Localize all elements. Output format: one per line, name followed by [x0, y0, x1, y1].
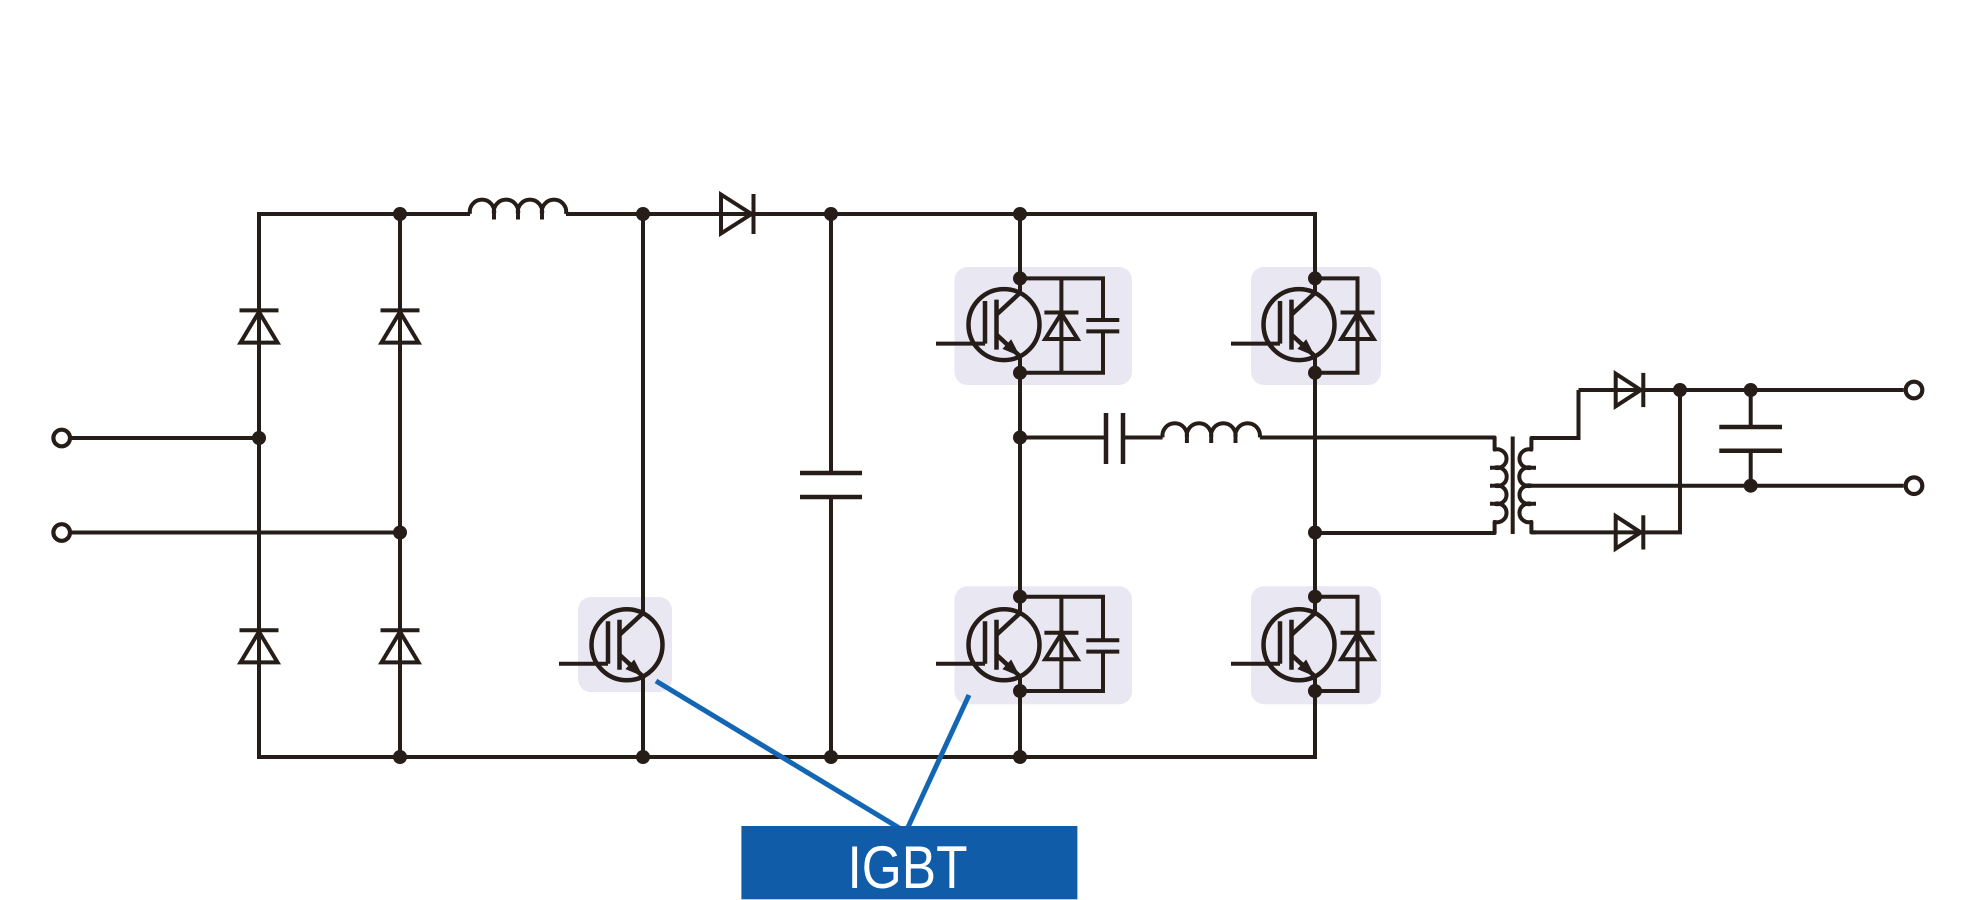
- wire right bridge leg: [398, 214, 402, 757]
- IGBT bridge Q3 top-right: [1231, 289, 1335, 360]
- capacitor output: [1719, 427, 1782, 451]
- wire input line bottom: [71, 531, 400, 535]
- junction Q5 emitter node: [1308, 684, 1322, 698]
- junction input top on left bridge leg: [252, 431, 266, 445]
- IGBT bridge Q5 bottom-right: [1231, 609, 1335, 680]
- wire bulk capacitor leg upper: [829, 214, 833, 473]
- branch wires Q3: [1315, 278, 1358, 372]
- diode boost D5: [721, 194, 754, 234]
- diode output top D6: [1616, 373, 1644, 407]
- wire boost IGBT leg upper: [641, 214, 645, 614]
- branch wires Q2: [1020, 278, 1103, 372]
- wire input line top: [71, 436, 259, 440]
- highlight box bridge IGBT bottom-left: [955, 586, 1133, 704]
- diode antiparallel Q2: [1044, 313, 1078, 340]
- diode bridge D3: [240, 630, 279, 662]
- wire boost IGBT leg lower: [641, 677, 645, 758]
- highlight box bridge IGBT top-left: [955, 267, 1133, 385]
- junction top rail at bridge leg: [393, 207, 407, 221]
- wire right full-bridge leg: [1313, 212, 1317, 759]
- wire bulk capacitor leg lower: [829, 497, 833, 757]
- junction resonant node A: [1013, 431, 1027, 445]
- junction bottom rail at boost leg: [636, 750, 650, 764]
- transformer T1 primary winding: [1480, 438, 1507, 534]
- junction output capacitor bottom: [1744, 479, 1758, 493]
- junction input bottom on right bridge leg: [393, 526, 407, 540]
- wire primary bottom: [1315, 531, 1495, 535]
- capacitor snubber Q2: [1086, 320, 1119, 331]
- capacitor resonant: [1106, 413, 1123, 464]
- junction Q5 collector node: [1308, 590, 1322, 604]
- label box IGBT: [741, 826, 1077, 899]
- wire bottom rail: [259, 755, 1315, 759]
- junction top rail at boost leg: [636, 207, 650, 221]
- capacitor snubber Q4: [1086, 640, 1119, 651]
- diode output bottom D7: [1616, 515, 1644, 549]
- diode bridge D4: [381, 630, 420, 662]
- diode antiparallel Q3: [1341, 313, 1375, 340]
- diode antiparallel Q5: [1341, 633, 1375, 660]
- wire resonant branch left: [1020, 436, 1106, 440]
- inductor resonant: [1162, 423, 1260, 443]
- leader line blue left: [656, 681, 905, 832]
- transformer T1 core: [1511, 437, 1515, 535]
- diode antiparallel Q4: [1044, 633, 1078, 660]
- junction Q3 collector node: [1308, 271, 1322, 285]
- IGBT boost Q1: [559, 609, 663, 680]
- junction Q2 collector node: [1013, 271, 1027, 285]
- wire top rail: [259, 212, 1315, 216]
- diode bridge D1: [240, 310, 279, 342]
- wire left bridge leg: [257, 212, 261, 759]
- junction top rail at left full-bridge leg: [1013, 207, 1027, 221]
- branch wires Q5: [1315, 597, 1358, 691]
- diode bridge D2: [381, 310, 420, 342]
- terminal input top: [53, 430, 70, 447]
- wire output capacitor stubs: [1749, 390, 1753, 486]
- transformer T1 secondary winding: [1519, 438, 1536, 532]
- terminal input bottom: [53, 524, 70, 541]
- junction node B primary return: [1308, 526, 1322, 540]
- branch wires Q4: [1020, 597, 1103, 691]
- wire left full-bridge leg: [1018, 214, 1022, 757]
- junction Q3 emitter node: [1308, 366, 1322, 380]
- wire resonant branch mid: [1123, 436, 1163, 440]
- highlight box bridge IGBT top-right: [1251, 267, 1381, 385]
- IGBT bridge Q2 top-left: [936, 289, 1040, 360]
- svg-text:IGBT: IGBT: [848, 833, 968, 900]
- IGBT bridge Q4 bottom-left: [936, 609, 1040, 680]
- junction Q4 collector node: [1013, 590, 1027, 604]
- wire center tap output bottom line: [1531, 484, 1903, 488]
- leader line blue right: [906, 695, 969, 832]
- wire output top line: [1579, 388, 1904, 392]
- wire resonant branch to transformer: [1260, 436, 1495, 440]
- junction bottom rail at bulk capacitor: [824, 750, 838, 764]
- junction rectifier output node: [1673, 383, 1687, 397]
- junction bottom rail at bridge leg: [393, 750, 407, 764]
- wire secondary top: [1531, 390, 1578, 438]
- capacitor bulk DC link: [800, 473, 862, 497]
- inductor input PFC choke: [470, 200, 566, 220]
- highlight box boost IGBT: [578, 597, 672, 692]
- wire secondary bottom to diode: [1531, 390, 1680, 532]
- terminal output top: [1906, 382, 1923, 399]
- junction Q2 emitter node: [1013, 366, 1027, 380]
- terminal output bottom: [1906, 477, 1923, 494]
- highlight box bridge IGBT bottom-right: [1251, 586, 1381, 704]
- junction bottom rail at left full-bridge leg: [1013, 750, 1027, 764]
- junction top rail at bulk capacitor: [824, 207, 838, 221]
- junction output capacitor top: [1744, 383, 1758, 397]
- junction Q4 emitter node: [1013, 684, 1027, 698]
